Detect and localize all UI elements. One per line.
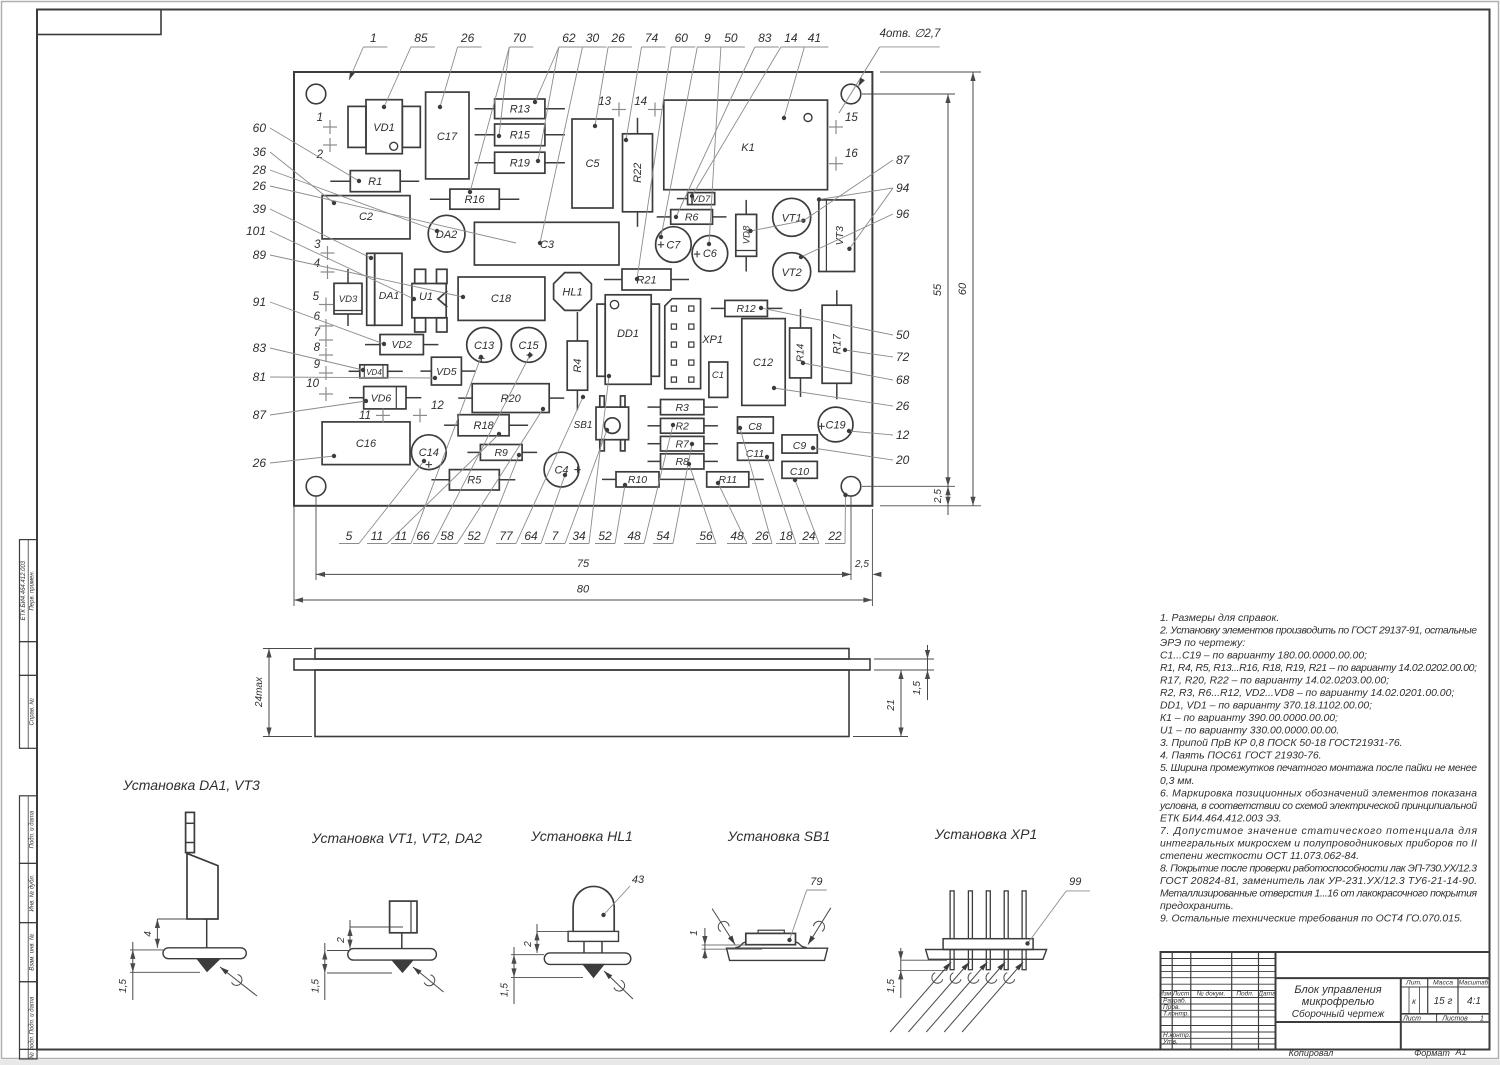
svg-text:C16: C16 (356, 438, 377, 450)
svg-text:1: 1 (317, 112, 323, 124)
svg-text:Подп. и дата: Подп. и дата (30, 996, 36, 1034)
svg-text:96: 96 (896, 207, 910, 221)
svg-text:1. Размеры для справок.: 1. Размеры для справок. (1160, 613, 1279, 624)
svg-text:R16: R16 (465, 194, 486, 206)
svg-text:Подп. и дата: Подп. и дата (30, 810, 36, 848)
svg-text:16: 16 (845, 148, 858, 160)
svg-text:VD4: VD4 (366, 368, 382, 377)
svg-text:DD1, VD1 – по варианту 370.18.: DD1, VD1 – по варианту 370.18.1102.00.00… (1160, 701, 1372, 712)
svg-text:А1: А1 (1454, 1047, 1466, 1057)
svg-text:8: 8 (314, 342, 321, 354)
svg-text:С1...С19 – по варианту 180.00.: С1...С19 – по варианту 180.00.0000.00.00… (1160, 651, 1367, 662)
svg-text:C10: C10 (790, 466, 809, 478)
svg-text:Перв. примен.: Перв. примен. (30, 571, 36, 611)
svg-text:U1: U1 (419, 291, 433, 303)
svg-text:Лист: Лист (1172, 991, 1190, 998)
svg-text:Установка DA1, VT3: Установка DA1, VT3 (122, 777, 260, 793)
svg-text:C17: C17 (437, 131, 458, 143)
svg-text:Металлизированные отверстия 1.: Металлизированные отверстия 1...16 от ла… (1160, 888, 1477, 899)
svg-text:Лист: Лист (1402, 1015, 1421, 1022)
svg-text:VD7: VD7 (692, 194, 711, 205)
svg-text:R22: R22 (632, 163, 644, 183)
svg-text:R1: R1 (368, 176, 382, 188)
svg-text:VD1: VD1 (373, 122, 394, 134)
svg-text:Установка SB1: Установка SB1 (727, 828, 830, 844)
svg-text:ЕТК БИ4.464.412.003 Э3.: ЕТК БИ4.464.412.003 Э3. (1160, 813, 1282, 824)
svg-text:91: 91 (253, 295, 266, 309)
svg-text:58: 58 (440, 529, 454, 543)
svg-text:Дата: Дата (1257, 991, 1276, 998)
svg-text:28: 28 (252, 163, 267, 177)
svg-text:R21: R21 (636, 274, 656, 286)
svg-text:50: 50 (724, 31, 738, 45)
svg-text:56: 56 (699, 529, 713, 543)
svg-text:Утв.: Утв. (1162, 1039, 1178, 1046)
svg-text:R19: R19 (510, 158, 530, 170)
svg-text:9. Остальные технические требо: 9. Остальные технические требования по О… (1160, 913, 1463, 925)
svg-text:26: 26 (252, 179, 267, 193)
svg-text:52: 52 (598, 529, 612, 543)
svg-text:5: 5 (313, 291, 320, 303)
svg-text:7. Допустимое значение статиче: 7. Допустимое значение статического поте… (1160, 826, 1477, 837)
svg-text:10: 10 (306, 378, 319, 390)
svg-text:5. Ширина промежутков печатног: 5. Ширина промежутков печатного монтажа … (1160, 763, 1477, 774)
svg-text:5: 5 (346, 529, 353, 543)
svg-text:К1 – по варианту 390.00.0000.0: К1 – по варианту 390.00.0000.00.00; (1160, 713, 1338, 724)
svg-text:C8: C8 (748, 421, 762, 433)
svg-text:0,3 мм.: 0,3 мм. (1160, 776, 1194, 787)
svg-text:20: 20 (895, 453, 910, 467)
svg-text:4: 4 (314, 258, 320, 270)
svg-text:4. Паять ПОС61 ГОСТ 21930-76.: 4. Паять ПОС61 ГОСТ 21930-76. (1160, 751, 1322, 762)
svg-text:R12: R12 (736, 303, 755, 315)
svg-text:94: 94 (896, 181, 910, 195)
svg-text:Формат: Формат (1414, 1048, 1450, 1058)
svg-text:2: 2 (523, 941, 534, 948)
svg-text:60: 60 (957, 282, 969, 295)
svg-text:K1: K1 (741, 142, 754, 154)
svg-text:R5: R5 (467, 475, 482, 487)
svg-text:81: 81 (253, 370, 266, 384)
svg-text:15: 15 (845, 112, 858, 124)
svg-text:Установка VT1, VT2, DA2: Установка VT1, VT2, DA2 (311, 830, 482, 846)
svg-text:C6: C6 (703, 248, 718, 260)
svg-text:1,5: 1,5 (886, 979, 897, 993)
svg-text:36: 36 (253, 145, 267, 159)
svg-text:1: 1 (370, 31, 377, 45)
svg-text:U1 – по варианту 330.00.0000.0: U1 – по варианту 330.00.0000.00.00. (1160, 726, 1339, 737)
svg-text:C12: C12 (753, 357, 773, 369)
svg-text:1: 1 (1480, 1015, 1484, 1022)
svg-text:Изм.: Изм. (1159, 991, 1173, 998)
svg-text:68: 68 (896, 373, 910, 387)
svg-text:75: 75 (577, 558, 590, 570)
svg-text:34: 34 (572, 529, 586, 543)
svg-text:60: 60 (253, 121, 267, 135)
svg-text:87: 87 (253, 408, 268, 422)
svg-text:22: 22 (827, 529, 842, 543)
svg-text:Копировал: Копировал (1289, 1048, 1334, 1058)
svg-text:12: 12 (431, 400, 444, 412)
svg-text:52: 52 (467, 529, 481, 543)
svg-text:R15: R15 (510, 130, 531, 142)
svg-text:Инв. № дубл.: Инв. № дубл. (29, 875, 36, 912)
svg-text:2,5: 2,5 (933, 489, 944, 504)
svg-text:C19: C19 (826, 419, 846, 431)
svg-text:R7: R7 (675, 438, 690, 450)
svg-text:R11: R11 (719, 474, 737, 486)
svg-text:13: 13 (598, 96, 611, 108)
svg-text:26: 26 (252, 456, 267, 470)
svg-text:ГОСТ 20824-81, заменитель лак: ГОСТ 20824-81, заменитель лак УР-231.УХ/… (1160, 876, 1477, 887)
svg-text:ЕТК БИ4.464.412.003: ЕТК БИ4.464.412.003 (21, 560, 27, 620)
svg-text:24: 24 (801, 529, 816, 543)
svg-text:R17: R17 (831, 333, 843, 354)
svg-text:50: 50 (896, 328, 910, 342)
svg-text:26: 26 (754, 529, 769, 543)
svg-text:VD6: VD6 (371, 393, 392, 405)
svg-text:26: 26 (895, 399, 910, 413)
svg-text:условна, в соответствии со схе: условна, в соответствии со схемой электр… (1159, 801, 1477, 812)
svg-text:54: 54 (656, 529, 670, 543)
svg-text:85: 85 (414, 31, 428, 45)
svg-text:89: 89 (253, 248, 267, 262)
svg-text:Взам. инв. №: Взам. инв. № (29, 933, 36, 971)
svg-text:21: 21 (886, 699, 897, 711)
svg-text:11: 11 (395, 529, 407, 543)
svg-text:интегральных микросхем и полуп: интегральных микросхем и полупроводников… (1160, 837, 1477, 849)
svg-text:24max: 24max (254, 676, 265, 708)
svg-text:VD8: VD8 (742, 225, 753, 244)
svg-text:1,5: 1,5 (500, 983, 511, 997)
svg-text:72: 72 (896, 350, 910, 364)
svg-text:4: 4 (143, 931, 154, 937)
svg-text:11: 11 (359, 410, 371, 422)
svg-text:4отв. ∅2,7: 4отв. ∅2,7 (880, 28, 941, 40)
svg-text:55: 55 (932, 283, 944, 296)
svg-text:3. Припой ПрВ КР 0,8 ПОСК 50-1: 3. Припой ПрВ КР 0,8 ПОСК 50-18 ГОСТ2193… (1160, 738, 1402, 749)
svg-text:C18: C18 (491, 293, 512, 305)
svg-text:C7: C7 (666, 239, 681, 251)
svg-text:R3: R3 (675, 402, 689, 414)
svg-text:8. Покрытие после проверки раб: 8. Покрытие после проверки работоспособн… (1160, 862, 1477, 874)
svg-text:7: 7 (314, 327, 321, 339)
svg-text:предохранить.: предохранить. (1160, 901, 1234, 912)
svg-text:60: 60 (675, 31, 689, 45)
svg-text:48: 48 (730, 529, 744, 543)
svg-text:11: 11 (371, 529, 383, 543)
svg-text:43: 43 (632, 874, 645, 886)
svg-text:1,5: 1,5 (118, 979, 129, 993)
svg-text:R10: R10 (628, 474, 647, 486)
svg-text:VT2: VT2 (782, 267, 802, 279)
svg-text:HL1: HL1 (562, 287, 582, 299)
svg-text:30: 30 (586, 31, 600, 45)
svg-text:101: 101 (246, 224, 266, 238)
svg-text:Установка XP1: Установка XP1 (934, 826, 1037, 842)
svg-text:C2: C2 (359, 211, 373, 223)
svg-text:R4: R4 (572, 359, 584, 373)
svg-text:Масштаб: Масштаб (1459, 979, 1489, 987)
svg-text:1,5: 1,5 (311, 979, 322, 993)
svg-text:R20: R20 (501, 393, 522, 405)
svg-text:70: 70 (513, 31, 527, 45)
svg-text:R2: R2 (675, 421, 689, 433)
svg-text:Листов: Листов (1441, 1015, 1468, 1022)
svg-text:14: 14 (784, 31, 798, 45)
svg-text:99: 99 (1069, 876, 1081, 888)
svg-text:Масса: Масса (1433, 980, 1453, 987)
svg-text:48: 48 (627, 529, 641, 543)
svg-text:R8: R8 (675, 456, 689, 468)
svg-text:26: 26 (610, 31, 625, 45)
svg-text:VD5: VD5 (436, 366, 457, 378)
svg-text:79: 79 (810, 876, 822, 888)
svg-text:C13: C13 (474, 340, 495, 352)
svg-text:66: 66 (416, 529, 430, 543)
svg-text:12: 12 (896, 428, 910, 442)
svg-text:XP1: XP1 (701, 334, 723, 346)
svg-text:DA1: DA1 (379, 290, 399, 302)
svg-text:3: 3 (314, 239, 321, 251)
svg-text:SB1: SB1 (574, 420, 593, 431)
svg-text:2: 2 (336, 937, 347, 944)
svg-text:R9: R9 (494, 447, 508, 459)
svg-text:Подп.: Подп. (1236, 990, 1253, 998)
svg-text:64: 64 (524, 529, 538, 543)
svg-text:15 г: 15 г (1434, 996, 1453, 1007)
svg-text:39: 39 (253, 202, 267, 216)
svg-text:Лит.: Лит. (1405, 980, 1422, 987)
svg-text:C9: C9 (793, 440, 807, 452)
svg-text:Т.контр.: Т.контр. (1163, 1011, 1189, 1018)
svg-text:18: 18 (779, 529, 793, 543)
svg-text:C15: C15 (519, 340, 540, 352)
svg-text:R14: R14 (796, 343, 807, 362)
svg-text:ЭРЭ по чертежу:: ЭРЭ по чертежу: (1160, 638, 1245, 649)
svg-text:C14: C14 (419, 447, 439, 459)
svg-text:степени жесткости ОСТ 11.073.0: степени жесткости ОСТ 11.073.062-84. (1160, 851, 1359, 862)
svg-text:77: 77 (499, 529, 514, 543)
svg-text:74: 74 (645, 31, 659, 45)
svg-text:1: 1 (689, 930, 700, 936)
svg-text:87: 87 (896, 153, 911, 167)
svg-text:9: 9 (704, 31, 711, 45)
svg-text:Сборочный чертеж: Сборочный чертеж (1292, 1008, 1386, 1020)
svg-text:2,5: 2,5 (854, 559, 869, 570)
svg-text:9: 9 (314, 359, 321, 371)
svg-text:26: 26 (460, 31, 475, 45)
svg-text:83: 83 (758, 31, 772, 45)
svg-text:R6: R6 (685, 212, 699, 224)
svg-text:VT3: VT3 (834, 226, 846, 245)
svg-text:C5: C5 (585, 158, 600, 170)
svg-text:6. Маркировка позиционных обоз: 6. Маркировка позиционных обозначений эл… (1160, 787, 1477, 799)
svg-text:R13: R13 (510, 104, 531, 116)
svg-text:1,5: 1,5 (912, 681, 923, 695)
svg-text:41: 41 (808, 31, 821, 45)
svg-text:4:1: 4:1 (1467, 996, 1481, 1007)
svg-text:62: 62 (562, 31, 576, 45)
svg-text:VD3: VD3 (339, 294, 358, 305)
svg-text:R17, R20, R22 – по варианту 14: R17, R20, R22 – по варианту 14.02.0203.0… (1160, 676, 1389, 687)
svg-text:C3: C3 (540, 239, 555, 251)
svg-text:C1: C1 (712, 370, 724, 381)
svg-text:14: 14 (634, 96, 647, 108)
svg-text:R2, R3, R6...R12, VD2...VD8 –: R2, R3, R6...R12, VD2...VD8 – по вариант… (1160, 688, 1454, 699)
svg-text:Установка HL1: Установка HL1 (530, 828, 633, 844)
svg-text:6: 6 (314, 311, 321, 323)
svg-text:Блок управления: Блок управления (1294, 984, 1381, 996)
svg-text:микрофрелью: микрофрелью (1302, 996, 1374, 1008)
svg-text:Инв. № подл.: Инв. № подл. (29, 1035, 36, 1060)
svg-text:DD1: DD1 (617, 328, 639, 340)
svg-text:2. Установку элементов произво: 2. Установку элементов производить по ГО… (1159, 626, 1477, 637)
svg-text:№ докум.: № докум. (1197, 990, 1226, 998)
svg-text:VD2: VD2 (391, 339, 412, 351)
svg-text:83: 83 (253, 341, 267, 355)
svg-text:R1, R4, R5, R13...R16, R18, R1: R1, R4, R5, R13...R16, R18, R19, R21 – п… (1160, 663, 1477, 674)
svg-text:80: 80 (577, 584, 590, 596)
svg-text:Справ. №: Справ. № (29, 698, 36, 726)
